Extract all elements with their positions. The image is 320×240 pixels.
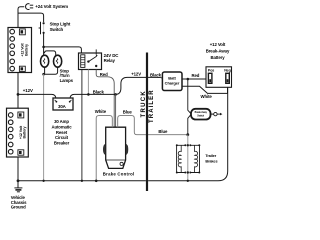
- wire White charger to battery Neg: [182, 83, 228, 93]
- svg-text:TRAILER: TRAILER: [149, 89, 155, 123]
- svg-text:30A: 30A: [58, 104, 67, 109]
- svg-text:+24 Volt System: +24 Volt System: [35, 4, 68, 9]
- node trailer brakes top junction: [187, 144, 189, 146]
- connector symbol +24 Volt System plug: [26, 4, 34, 10]
- svg-text:Red: Red: [100, 72, 108, 77]
- svg-text:Battery: Battery: [22, 125, 26, 138]
- svg-text:+12 Volt: +12 Volt: [210, 42, 226, 47]
- svg-text:+12V: +12V: [131, 71, 141, 76]
- wire Red relay output to brake control: [96, 70, 114, 128]
- svg-text:Switch: Switch: [50, 27, 64, 32]
- svg-text:Trailer: Trailer: [205, 154, 216, 158]
- svg-text:Lamps: Lamps: [60, 78, 74, 83]
- svg-text:Battery: Battery: [24, 43, 28, 56]
- svg-text:Red: Red: [192, 73, 200, 78]
- lamp L2 stop/turn: [54, 55, 62, 67]
- switch S1 stop light switch: [43, 23, 45, 33]
- svg-text:Automatic: Automatic: [51, 124, 72, 129]
- node blue junction at trailer brakes: [186, 133, 189, 136]
- wire circuit breaker out to black junction: [70, 94, 116, 100]
- label +12 Volt Break-Away Battery: [206, 42, 230, 60]
- wire breakaway battery Pos to breakaway switch: [188, 79, 192, 114]
- label 30 Amp Automatic Reset Circuit Breaker: [51, 119, 72, 146]
- node trailer brakes ground on bus: [187, 180, 189, 182]
- svg-text:Black: Black: [93, 89, 105, 94]
- lamp L1 stop/turn: [41, 55, 49, 67]
- wire trailer brakes center drop: [187, 135, 189, 181]
- battery B1 +12 Volt block: [8, 28, 32, 73]
- ground symbol vehicle chassis: [14, 188, 22, 192]
- breakaway switch pill: [191, 109, 211, 120]
- node +12V tap junction: [17, 93, 20, 96]
- wire relay coil to chassis ground: [81, 70, 83, 181]
- wire lamp top bridge: [44, 47, 56, 56]
- node relay common on +12V bus: [87, 93, 90, 96]
- svg-text:Black: Black: [150, 72, 162, 77]
- svg-text:Blue: Blue: [123, 110, 133, 115]
- node white wire on chassis bus: [95, 180, 98, 183]
- svg-text:Reset: Reset: [56, 130, 68, 135]
- svg-text:Neg: Neg: [224, 68, 231, 72]
- wire +12V bus to circuit breaker: [18, 94, 56, 100]
- svg-text:Brakes: Brakes: [205, 159, 217, 163]
- svg-text:Ground: Ground: [11, 204, 26, 209]
- wire branch to stop light switch: [18, 13, 44, 22]
- wire breakaway switch to blue junction: [188, 114, 192, 135]
- circuit breaker CB1 box 30A: [53, 98, 73, 110]
- svg-text:Brake Control: Brake Control: [103, 172, 135, 177]
- wire battery B2 to ground: [17, 157, 19, 188]
- node trailer brakes bottom junction: [187, 171, 189, 173]
- node chassis ground junction: [17, 179, 20, 182]
- svg-text:Battery: Battery: [210, 55, 225, 60]
- svg-text:Relay: Relay: [104, 58, 116, 63]
- svg-text:Switch: Switch: [197, 114, 204, 117]
- svg-text:White: White: [201, 94, 213, 99]
- node relay ground on chassis bus: [81, 180, 83, 182]
- wire chassis ground bus: [18, 180, 146, 182]
- svg-text:Charger: Charger: [165, 81, 180, 86]
- svg-text:Break-Away: Break-Away: [195, 111, 208, 114]
- svg-text:Blue: Blue: [158, 129, 168, 134]
- svg-text:Circuit: Circuit: [55, 135, 69, 140]
- svg-text:Pos: Pos: [208, 68, 214, 72]
- wire Black riser to trailer feed: [116, 77, 163, 94]
- breakaway switch pull pin: [211, 112, 223, 115]
- svg-text:Break-Away: Break-Away: [206, 49, 230, 54]
- node lamp ground on chassis bus: [42, 180, 44, 182]
- wire Black drop into brake control: [115, 94, 117, 127]
- wire battery B1 to B2 series link: [17, 73, 19, 109]
- svg-text:+12V: +12V: [23, 88, 33, 93]
- relay U1 box: [79, 53, 102, 70]
- relay U1 coil: [81, 55, 85, 68]
- node junction stop light to relay and lamps: [42, 46, 45, 49]
- brake control box: [103, 127, 128, 168]
- wire lamp bottoms to ground drop: [44, 67, 58, 74]
- relay U1 contact: [87, 49, 97, 67]
- node black wire junction above brake control: [114, 93, 117, 96]
- wire charger output to breakaway battery Pos: [182, 78, 209, 80]
- battery charger box: [162, 72, 182, 91]
- wire +24V riser from battery B1 top to +24 Volt System connector: [18, 7, 24, 28]
- wire gray lamp ground drop to chassis bus: [43, 74, 45, 181]
- svg-text:Breaker: Breaker: [54, 141, 70, 146]
- wire switch to lamp junction: [43, 33, 45, 47]
- node lamp ground junction: [42, 73, 45, 76]
- wire Blue hook from brake control to trailer: [118, 116, 188, 135]
- breakaway battery box: [206, 67, 232, 88]
- wire junction to relay coil input: [44, 47, 82, 53]
- trailer brake magnet left: [176, 144, 187, 173]
- wire White hook from brake control to chassis bus: [96, 116, 112, 181]
- svg-text:White: White: [95, 109, 107, 114]
- wire trailer ground bus and outline: [148, 87, 228, 181]
- battery B2 +12 Volt block: [7, 108, 29, 157]
- trailer brake magnet right: [189, 144, 200, 173]
- wire gray relay common to +12V bus: [87, 70, 89, 95]
- svg-text:30 Amp: 30 Amp: [54, 119, 69, 124]
- truck trailer divider line: [146, 53, 148, 192]
- svg-text:TRUCK: TRUCK: [141, 90, 147, 118]
- node charger output junction: [187, 78, 190, 81]
